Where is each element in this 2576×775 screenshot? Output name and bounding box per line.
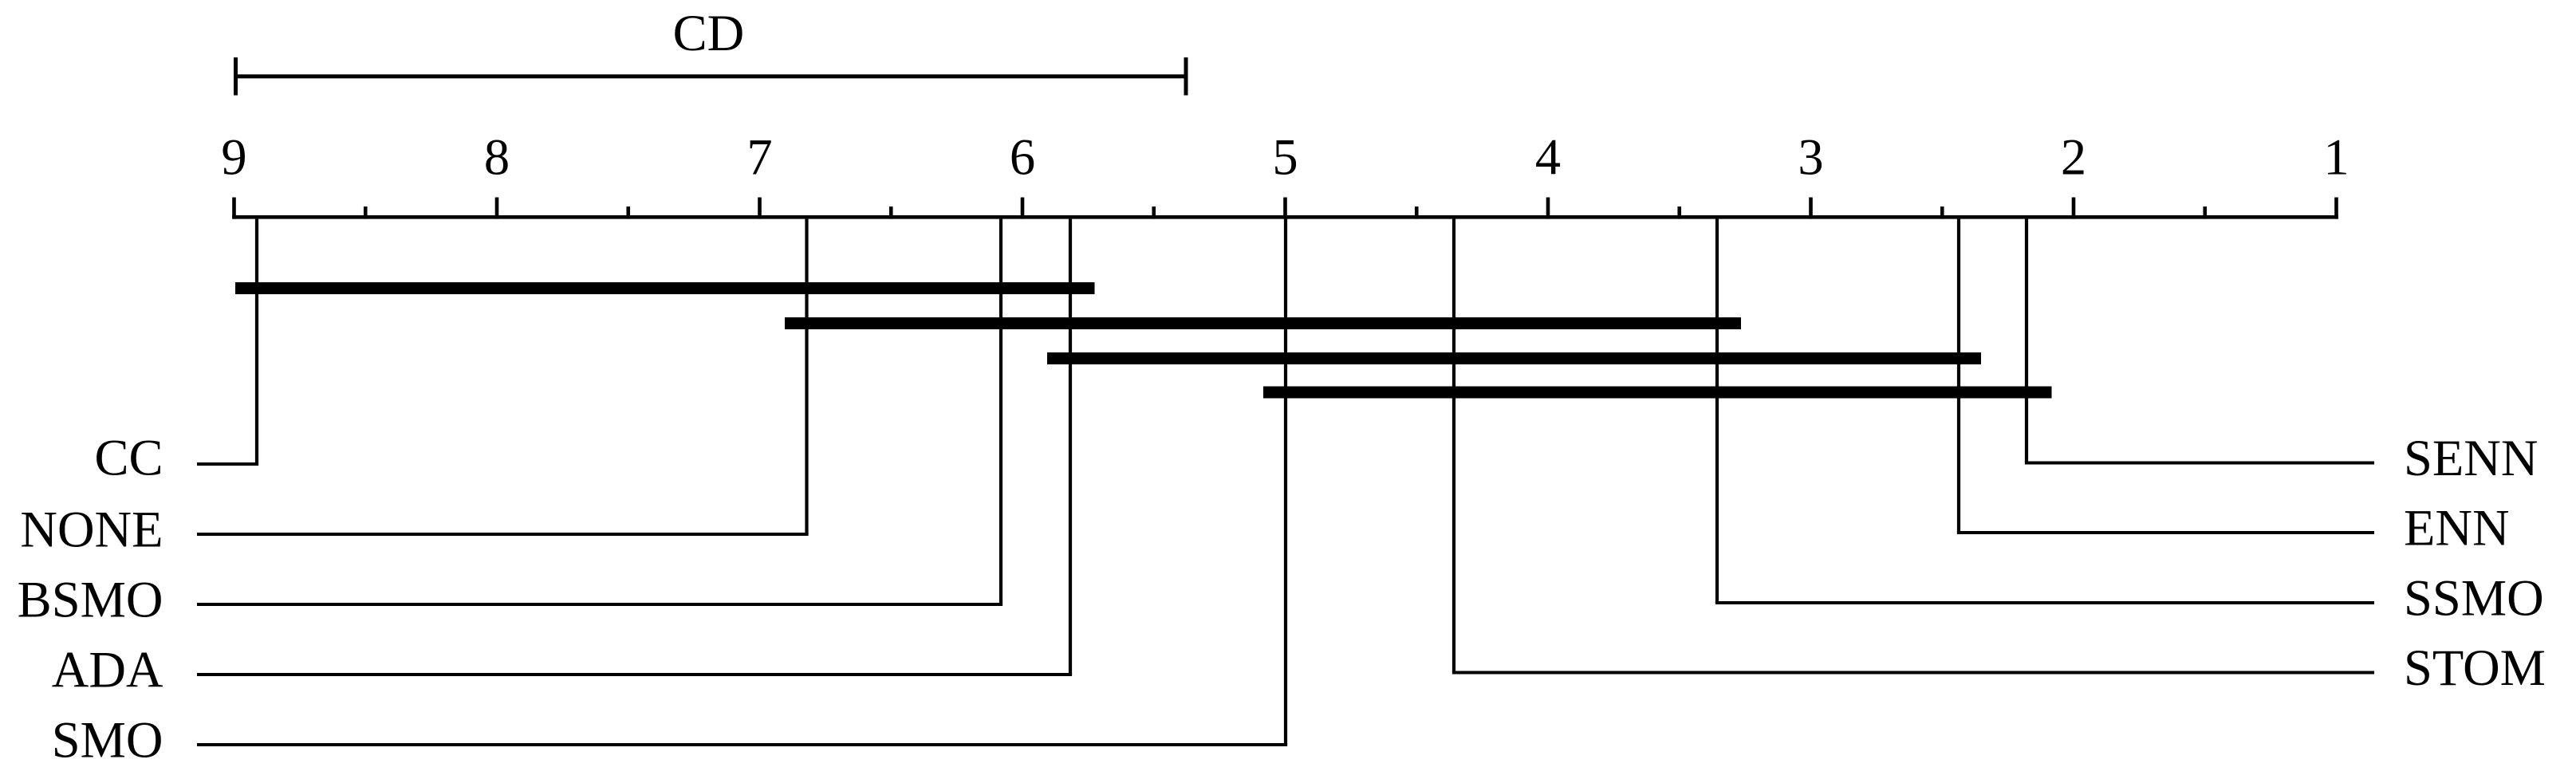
svg-text:STOM: STOM <box>2404 639 2546 696</box>
svg-text:CD: CD <box>673 5 745 61</box>
svg-text:1: 1 <box>2323 129 2349 186</box>
svg-text:NONE: NONE <box>20 502 163 558</box>
svg-text:ENN: ENN <box>2404 500 2510 557</box>
svg-text:5: 5 <box>1272 129 1298 186</box>
svg-text:7: 7 <box>746 129 772 186</box>
svg-text:4: 4 <box>1535 129 1561 186</box>
svg-text:SSMO: SSMO <box>2404 570 2544 627</box>
svg-text:SMO: SMO <box>52 712 163 769</box>
svg-text:9: 9 <box>221 129 246 186</box>
svg-text:SENN: SENN <box>2404 430 2538 486</box>
svg-text:6: 6 <box>1010 129 1035 186</box>
svg-text:2: 2 <box>2061 129 2086 186</box>
svg-text:8: 8 <box>484 129 510 186</box>
svg-text:ADA: ADA <box>52 642 163 698</box>
svg-text:BSMO: BSMO <box>18 572 163 628</box>
svg-text:CC: CC <box>94 430 163 486</box>
svg-text:3: 3 <box>1798 129 1823 186</box>
